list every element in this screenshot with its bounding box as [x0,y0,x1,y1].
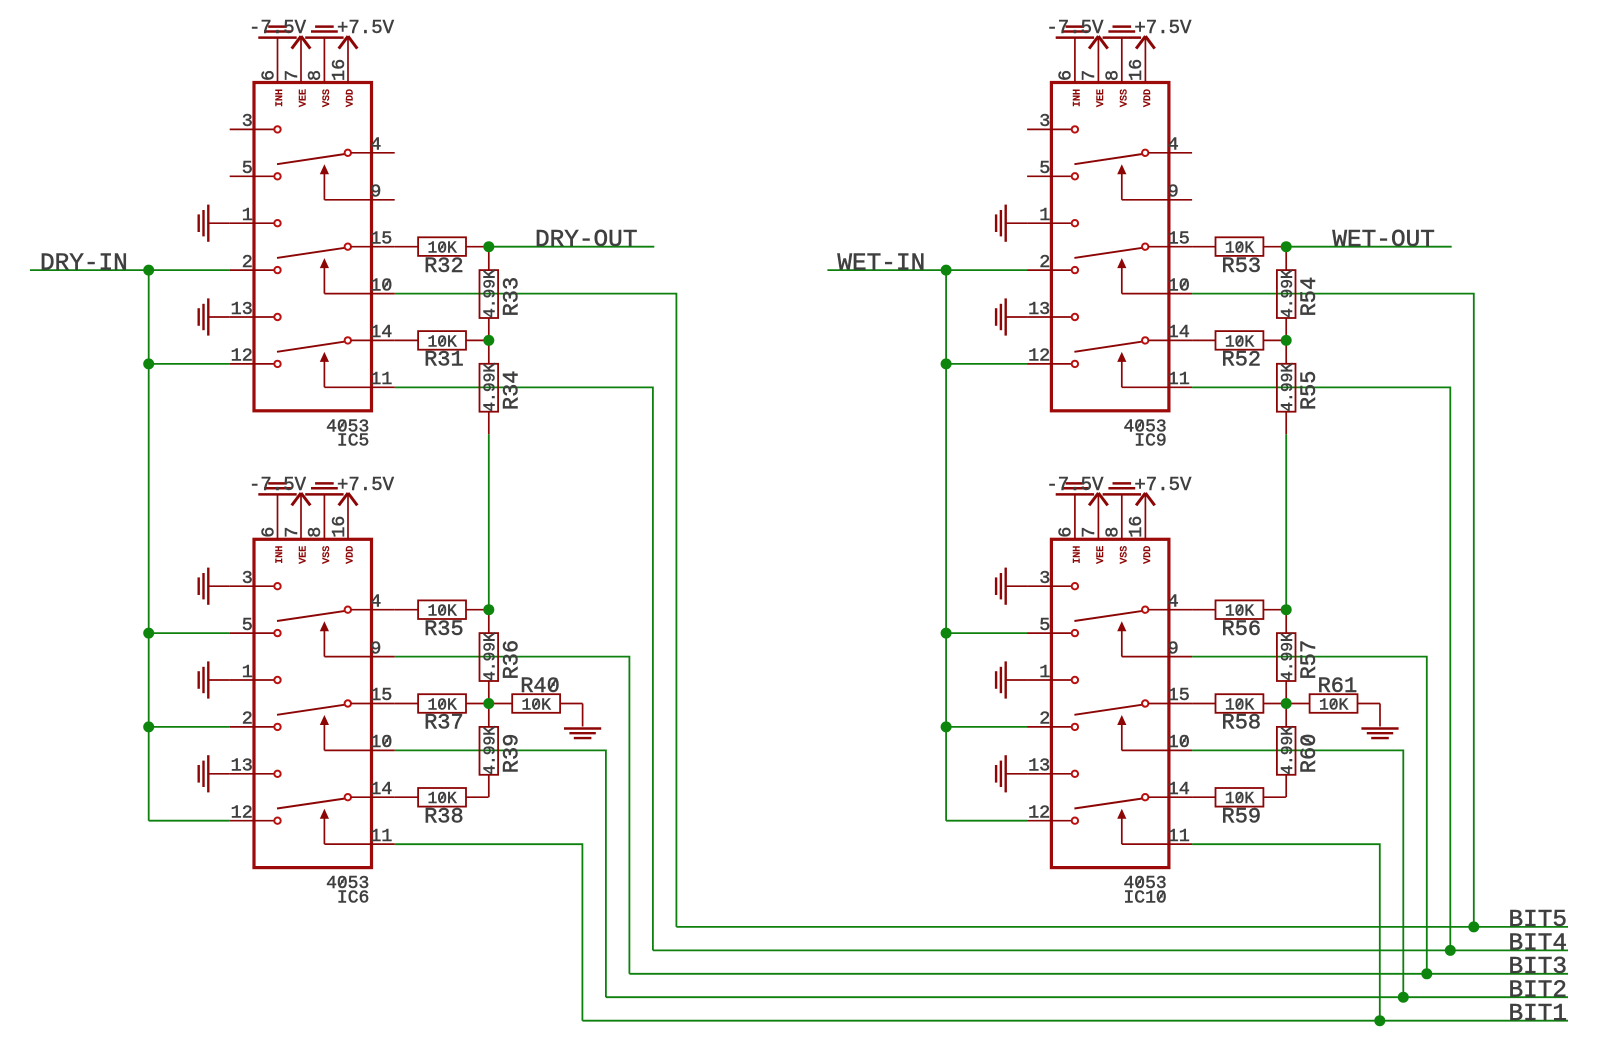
net BIT3 branch from lower IC pin 9 [1192,657,1427,974]
IC IC5 switch lever (pins 14) [277,342,345,352]
svg-text:R32: R32 [424,254,464,279]
IC IC10 pin 5 stub wire [1027,632,1072,634]
resistor R53 10K horizontal [1192,246,1215,248]
IC IC10 switch lever (pins 15) [1074,705,1142,715]
IC IC5 switch lever (pins 15) [277,248,345,258]
net BIT5 horizontal rail [676,926,1568,928]
IC IC6 pin 4 wire [351,609,395,611]
IC IC5 pin 2 contact circle [274,267,280,273]
svg-text:15: 15 [370,229,392,250]
ground at IC10 pin 3 [1005,568,1007,605]
IC IC5 switch pole circle pin 4 [345,150,351,156]
IC IC5 pin 1 contact circle [274,220,280,226]
svg-text:10: 10 [370,732,392,753]
IC IC9 switch pole circle pin 14 [1142,337,1148,343]
IC IC6 pin 3 contact circle [274,583,280,589]
svg-text:2: 2 [1039,709,1050,730]
svg-text:INH: INH [275,546,286,564]
junction BIT2 with right-half branch [1398,992,1409,1003]
svg-text:11: 11 [370,826,392,847]
svg-text:+7.5V: +7.5V [1134,17,1192,39]
IC IC9 pin 6 INH wire to -7.5V bar [1074,39,1076,83]
IC IC9 pin 16 VDD supply arrow [1144,37,1146,83]
svg-text:IC6: IC6 [337,888,369,908]
junction WET-IN pin2 lower tap [941,721,952,732]
IC IC5 pin 15 wire [351,246,395,248]
IC IC6 switch pole circle pin 15 [345,700,351,706]
svg-text:8: 8 [1103,527,1124,538]
IC IC9 pin 5 stub wire [1027,175,1072,177]
svg-text:7: 7 [1079,70,1100,81]
junction mid divider node [1281,335,1292,346]
net DRY-IN vertical bus wire [148,270,150,821]
svg-text:1: 1 [242,205,253,226]
IC IC10 pin 6 INH wire to -7.5V bar [1074,495,1076,539]
IC IC5 pin 5 stub wire [230,175,275,177]
IC IC9 pin 7 VEE supply arrow [1097,37,1099,83]
IC IC9 pin 12 contact circle [1072,361,1078,367]
svg-text:14: 14 [370,322,392,343]
svg-text:4.99K: 4.99K [1278,363,1297,412]
svg-text:16: 16 [329,516,350,538]
IC IC5 pin 13 contact circle [274,314,280,320]
svg-text:VSS: VSS [1119,89,1130,107]
ground at IC5 pin 1 [207,205,209,242]
IC IC10 VSS ground bars [1103,493,1141,496]
svg-text:9: 9 [370,182,381,203]
net BIT3 horizontal rail [629,973,1568,975]
junction output node (R top) [483,241,494,252]
junction DRY-IN pin5 lower tap [143,628,154,639]
IC IC10 pin 10 wire [1122,749,1192,751]
svg-text:VDD: VDD [1143,546,1154,564]
svg-text:15: 15 [370,685,392,706]
net BIT4 horizontal rail [653,949,1568,951]
IC IC10 pin 11 wire [1122,843,1192,845]
resistor R40 10K horizontal [489,703,512,705]
resistor R34 4.99K vertical [488,340,490,363]
wire right input to pin 2 row (lower IC) [946,726,1027,728]
svg-text:INH: INH [1073,89,1084,107]
svg-text:WET-OUT: WET-OUT [1332,227,1434,254]
IC IC6 pin 12 contact circle [274,818,280,824]
junction WET-IN at input tap [941,265,952,276]
svg-text:R56: R56 [1222,617,1262,642]
IC IC5 pin 13 stub wire [230,316,275,318]
IC IC6 -7.5V supply rail bars [258,493,296,496]
svg-text:5: 5 [1039,615,1050,636]
resistor R35 10K horizontal [395,609,418,611]
junction lower IC node B [483,698,494,709]
IC IC5 pin 6 INH wire to -7.5V bar [277,39,279,83]
svg-text:4.99K: 4.99K [480,269,499,318]
junction output node (R top) [1281,241,1292,252]
svg-text:-7.5V: -7.5V [249,474,307,496]
IC IC5 pin 8 VSS wire to ground bar [323,39,325,83]
resistor R52 10K horizontal [1192,339,1215,341]
svg-text:4.99K: 4.99K [1278,632,1297,681]
IC IC5 pin 5 contact circle [274,173,280,179]
IC IC10 pin 5 contact circle [1072,630,1078,636]
svg-text:1: 1 [242,662,253,683]
IC IC6 switch pole circle pin 14 [345,794,351,800]
IC IC6 4053 body [254,539,372,867]
svg-text:VDD: VDD [346,546,357,564]
IC IC5 pin 4 wire [351,152,395,154]
IC IC6 pin 8 VSS wire to ground bar [323,495,325,539]
net BIT4 branch from upper IC pin 11 [395,387,653,950]
svg-text:5: 5 [242,615,253,636]
IC IC5 switch control arrow (pin 11) [320,352,329,362]
IC IC5 pin 3 contact circle [274,126,280,132]
wire left input to pin 12 row (lower IC) [149,820,230,822]
ground at IC10 pin 13 [1005,755,1007,792]
svg-text:4: 4 [1168,135,1179,156]
IC IC5 pin 12 contact circle [274,361,280,367]
svg-text:6: 6 [1056,527,1077,538]
net BIT2 branch from lower IC pin 10 [1192,750,1403,997]
net DRY-IN horizontal wire [30,269,230,271]
svg-text:9: 9 [1168,182,1179,203]
resistor R60 4.99K vertical [1285,704,1287,727]
svg-text:1: 1 [1039,205,1050,226]
IC IC6 pin 3 stub wire [230,585,275,587]
svg-text:DRY-IN: DRY-IN [40,250,128,277]
IC IC9 pin 3 contact circle [1072,126,1078,132]
svg-text:R39: R39 [499,734,524,774]
resistor R32 10K horizontal [395,246,418,248]
IC IC9 switch lever (pins 4) [1074,154,1142,164]
svg-text:R33: R33 [499,277,524,317]
IC IC9 pin 15 wire [1148,246,1192,248]
svg-text:13: 13 [1028,756,1050,777]
resistor R57 4.99K vertical [1285,610,1287,633]
svg-text:-7.5V: -7.5V [249,17,307,39]
svg-text:+7.5V: +7.5V [337,17,395,39]
IC IC9 switch pole circle pin 4 [1142,150,1148,156]
net WET-IN horizontal wire [827,269,1027,271]
IC IC9 pin 13 stub wire [1027,316,1072,318]
IC IC6 switch pole circle pin 4 [345,607,351,613]
svg-text:3: 3 [242,568,253,589]
svg-text:VSS: VSS [322,546,333,564]
junction lower IC node A [1281,604,1292,615]
svg-text:16: 16 [329,59,350,81]
IC IC10 -7.5V supply rail bars [1056,493,1094,496]
IC IC6 VSS ground bars [305,493,343,496]
svg-text:+7.5V: +7.5V [337,474,395,496]
IC IC5 VSS ground bars [305,36,343,39]
svg-text:VDD: VDD [1143,89,1154,107]
svg-text:11: 11 [370,369,392,390]
wire left input to pin 5 row (lower IC) [149,632,230,634]
junction mid divider node [483,335,494,346]
svg-text:4.99K: 4.99K [1278,726,1297,775]
resistor R33 4.99K vertical [488,247,490,270]
IC IC6 pin 16 VDD supply arrow [347,494,349,540]
IC IC10 pin 3 contact circle [1072,583,1078,589]
net BIT1 branch from lower IC pin 11 [1192,844,1380,1021]
svg-text:3: 3 [1039,568,1050,589]
svg-text:4.99K: 4.99K [480,363,499,412]
svg-text:3: 3 [1039,111,1050,132]
svg-text:11: 11 [1168,369,1190,390]
IC IC6 pin 14 wire [351,796,395,798]
IC IC10 pin 3 stub wire [1027,585,1072,587]
ground at IC6 pin 1 [207,661,209,698]
net BIT4 branch from upper IC pin 11 [1192,387,1450,950]
IC IC10 pin 4 wire [1148,609,1192,611]
resistor R39 4.99K vertical [488,704,490,727]
IC IC6 pin 6 INH wire to -7.5V bar [277,495,279,539]
IC IC9 VSS ground bars [1103,36,1141,39]
svg-text:16: 16 [1126,516,1147,538]
ground below R40 [582,704,584,727]
svg-text:4: 4 [370,135,381,156]
IC IC9 switch lever (pins 15) [1074,248,1142,258]
IC IC10 switch control arrow (pin 9) [1117,621,1126,631]
IC IC5 pin 12 stub wire [230,363,275,365]
ground at IC6 pin 3 [207,568,209,605]
IC IC9 pin 2 stub wire [1027,269,1072,271]
IC IC10 switch lever (pins 14) [1074,799,1142,809]
IC IC10 switch pole circle pin 15 [1142,700,1148,706]
svg-text:R37: R37 [424,711,464,736]
IC IC9 switch lever (pins 14) [1074,342,1142,352]
ground at IC10 pin 1 [1005,661,1007,698]
svg-text:4: 4 [370,592,381,613]
IC IC5 4053 body [254,83,372,411]
wire right input to pin 12 row (lower IC) [946,820,1027,822]
IC IC6 switch lever (pins 14) [277,799,345,809]
junction BIT1 with right-half branch [1374,1015,1385,1026]
IC IC10 pin 1 stub wire [1027,679,1072,681]
ground at IC9 pin 13 [1005,298,1007,335]
svg-text:7: 7 [282,70,303,81]
svg-text:BIT1: BIT1 [1509,1001,1568,1028]
junction lower IC node B [1281,698,1292,709]
junction WET-IN pin5 lower tap [941,628,952,639]
svg-text:12: 12 [1028,346,1050,367]
svg-text:VEE: VEE [1096,546,1107,564]
svg-text:13: 13 [231,756,253,777]
IC IC6 switch control arrow (pin 11) [320,809,329,819]
net WET-IN vertical bus wire [945,270,947,821]
svg-text:INH: INH [275,89,286,107]
IC IC5 pin 9 wire [324,199,394,201]
svg-text:WET-IN: WET-IN [837,250,925,277]
svg-text:7: 7 [282,527,303,538]
net WET-OUT wire [1286,246,1452,248]
resistor R38 10K horizontal [395,796,418,798]
IC IC6 pin 12 stub wire [230,820,275,822]
IC IC9 pin 13 contact circle [1072,314,1078,320]
svg-text:VEE: VEE [299,546,310,564]
IC IC9 switch control arrow (pin 11) [1117,352,1126,362]
svg-text:DRY-OUT: DRY-OUT [535,227,637,254]
IC IC10 pin 12 stub wire [1027,820,1072,822]
resistor R55 4.99K vertical [1285,340,1287,363]
svg-text:INH: INH [1073,546,1084,564]
IC IC9 pin 12 stub wire [1027,363,1072,365]
wire left input to pin 12 row (upper IC) [149,363,230,365]
svg-text:R53: R53 [1222,254,1262,279]
svg-text:R59: R59 [1222,805,1262,830]
IC IC10 pin 14 wire [1148,796,1192,798]
svg-text:VSS: VSS [322,89,333,107]
IC IC10 pin 16 VDD supply arrow [1144,494,1146,540]
wire right input to pin 12 row (upper IC) [946,363,1027,365]
IC IC5 switch pole circle pin 14 [345,337,351,343]
svg-text:IC5: IC5 [337,432,369,452]
net BIT5 branch from upper IC pin 10 [1192,294,1474,927]
svg-text:14: 14 [1168,322,1190,343]
junction DRY-IN pin2 lower tap [143,721,154,732]
svg-text:12: 12 [1028,803,1050,824]
svg-text:4: 4 [1168,592,1179,613]
IC IC9 4053 body [1051,83,1169,411]
junction WET-IN pin12 upper tap [941,358,952,369]
svg-text:R54: R54 [1297,277,1322,317]
IC IC6 switch lever (pins 4) [277,611,345,621]
svg-text:R38: R38 [424,805,464,830]
svg-text:4.99K: 4.99K [1278,269,1297,318]
svg-text:VDD: VDD [346,89,357,107]
resistor R54 4.99K vertical [1285,247,1287,270]
IC IC5 pin 2 stub wire [230,269,275,271]
IC IC10 switch pole circle pin 4 [1142,607,1148,613]
svg-text:5: 5 [1039,158,1050,179]
svg-text:-7.5V: -7.5V [1046,17,1104,39]
wire divider chain link (R-vertical to lower IC) [488,434,490,610]
svg-text:14: 14 [1168,779,1190,800]
IC IC6 pin 10 wire [324,749,394,751]
IC IC6 pin 13 stub wire [230,773,275,775]
svg-text:R58: R58 [1222,711,1262,736]
svg-text:VEE: VEE [299,89,310,107]
net BIT5 branch from upper IC pin 10 [395,294,677,927]
svg-text:VSS: VSS [1119,546,1130,564]
svg-text:4.99K: 4.99K [480,726,499,775]
IC IC9 pin 9 wire [1122,199,1192,201]
svg-text:-7.5V: -7.5V [1046,474,1104,496]
IC IC5 switch control arrow (pin 9) [320,164,329,174]
IC IC6 switch control arrow (pin 9) [320,621,329,631]
wire right input to pin 5 row (lower IC) [946,632,1027,634]
svg-text:R60: R60 [1297,734,1322,774]
ground below R61 [1379,704,1381,727]
svg-text:R34: R34 [499,370,524,410]
junction lower IC node A [483,604,494,615]
net BIT3 branch from lower IC pin 9 [395,657,630,974]
IC IC9 switch control arrow (pin 9) [1117,164,1126,174]
IC IC6 switch control arrow (pin 10) [320,715,329,725]
svg-text:13: 13 [231,299,253,320]
junction BIT4 with right-half branch [1445,945,1456,956]
IC IC9 pin 3 stub wire [1027,128,1072,130]
svg-text:5: 5 [242,158,253,179]
IC IC10 pin 13 stub wire [1027,773,1072,775]
svg-text:3: 3 [242,111,253,132]
ground at IC5 pin 13 [207,298,209,335]
IC IC9 pin 1 contact circle [1072,220,1078,226]
svg-text:R52: R52 [1222,348,1262,373]
IC IC10 4053 body [1051,539,1169,867]
net DRY-OUT wire [489,246,655,248]
IC IC6 pin 13 contact circle [274,771,280,777]
resistor R58 10K horizontal [1192,703,1215,705]
svg-text:VEE: VEE [1096,89,1107,107]
IC IC10 pin 2 stub wire [1027,726,1072,728]
svg-text:15: 15 [1168,685,1190,706]
IC IC6 pin 2 contact circle [274,724,280,730]
IC IC9 pin 4 wire [1148,152,1192,154]
wire divider chain link (R-vertical to lower IC) [1285,434,1287,610]
IC IC5 switch lever (pins 4) [277,154,345,164]
ground at IC9 pin 1 [1005,205,1007,242]
resistor R37 10K horizontal [395,703,418,705]
svg-text:R55: R55 [1297,370,1322,410]
IC IC5 pin 10 wire [324,293,394,295]
svg-text:2: 2 [242,709,253,730]
svg-text:6: 6 [1056,70,1077,81]
svg-text:IC9: IC9 [1134,432,1166,452]
IC IC9 switch control arrow (pin 10) [1117,258,1126,268]
IC IC6 pin 7 VEE supply arrow [300,494,302,540]
IC IC10 pin 2 contact circle [1072,724,1078,730]
IC IC6 pin 5 contact circle [274,630,280,636]
IC IC6 pin 1 stub wire [230,679,275,681]
net BIT1 horizontal rail [582,1020,1568,1022]
IC IC9 switch pole circle pin 15 [1142,244,1148,250]
IC IC10 pin 1 contact circle [1072,677,1078,683]
svg-text:2: 2 [242,252,253,273]
svg-text:6: 6 [258,70,279,81]
IC IC10 pin 12 contact circle [1072,818,1078,824]
svg-text:2: 2 [1039,252,1050,273]
svg-text:8: 8 [1103,70,1124,81]
wire left input to pin 2 row (lower IC) [149,726,230,728]
svg-text:R40: R40 [520,674,560,699]
svg-text:16: 16 [1126,59,1147,81]
IC IC9 -7.5V supply rail bars [1056,36,1094,39]
svg-text:8: 8 [305,527,326,538]
svg-text:1: 1 [1039,662,1050,683]
IC IC5 -7.5V supply rail bars [258,36,296,39]
IC IC5 pin 14 wire [351,339,395,341]
IC IC6 pin 9 wire [324,656,394,658]
svg-text:15: 15 [1168,229,1190,250]
IC IC5 pin 3 stub wire [230,128,275,130]
resistor R61 10K horizontal [1286,703,1309,705]
IC IC9 pin 10 wire [1122,293,1192,295]
resistor R31 10K horizontal [395,339,418,341]
IC IC9 pin 2 contact circle [1072,267,1078,273]
junction BIT5 with right-half branch [1468,921,1479,932]
IC IC10 pin 8 VSS wire to ground bar [1121,495,1123,539]
IC IC10 switch control arrow (pin 11) [1117,809,1126,819]
svg-text:14: 14 [370,779,392,800]
svg-text:R35: R35 [424,617,464,642]
IC IC5 pin 16 VDD supply arrow [347,37,349,83]
IC IC6 switch lever (pins 15) [277,705,345,715]
IC IC10 switch lever (pins 4) [1074,611,1142,621]
IC IC6 pin 15 wire [351,703,395,705]
IC IC6 pin 11 wire [324,843,394,845]
IC IC9 pin 1 stub wire [1027,222,1072,224]
svg-text:+7.5V: +7.5V [1134,474,1192,496]
svg-text:10: 10 [1168,732,1190,753]
